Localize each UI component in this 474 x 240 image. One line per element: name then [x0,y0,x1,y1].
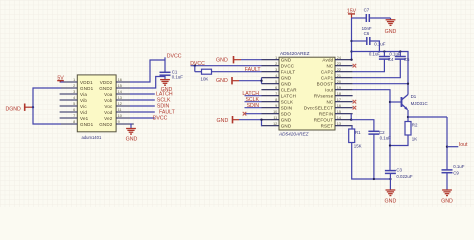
U2 pin 3 (FAULT) [261,68,295,75]
D1 part MJD31C [411,101,428,106]
U2 pin 2 (DVCC) [261,62,294,69]
wire AVDD rail [352,52,409,95]
svg-text:Vib: Vib [80,98,87,103]
power port 5V [57,76,64,83]
svg-text:Vod: Vod [104,110,113,115]
svg-text:4: 4 [275,74,277,78]
junction 15V/AVDD rail [350,50,352,52]
svg-text:DGND: DGND [6,106,22,112]
wire C6 to AVDD rail [370,41,380,52]
U2 pin 22 (CAP2) [321,68,353,75]
C4 value 0.1uF [369,51,381,56]
svg-text:Vob: Vob [104,98,113,103]
svg-text:GND1: GND1 [80,86,94,91]
D1 designator [411,94,417,99]
net label SDIN [157,103,170,109]
svg-text:FAULT: FAULT [245,67,262,73]
wire U1 pin11 net FAULT [130,111,155,113]
net label SDIN (U2 side) [247,103,260,109]
wire REFOUT to C2 [351,120,374,132]
svg-text:0.022uF: 0.022uF [396,174,412,179]
C2 value 0.1uF [380,136,392,141]
wire GND port bracket to U2 pins 4,5 [239,78,262,84]
C5 designator [404,57,410,62]
resistor R1 [349,129,355,143]
U1 pin 9 (GND2) [99,120,134,127]
wire DGND bus (U1 pins 2,8) [33,88,61,124]
svg-text:0.1uF: 0.1uF [380,136,392,141]
svg-text:MJD31C: MJD31C [411,101,428,106]
svg-text:C7: C7 [364,8,370,13]
wire net SCLK to U2 [245,101,262,103]
wire C7 to GND [369,18,390,20]
ground GND (below C9) [441,190,453,205]
net label DVCC [153,115,168,121]
junction rail / C5 [399,50,401,52]
U2 pin 10 (SDO) [261,110,291,117]
U2 pin 8 (SCLK) [261,98,293,105]
transistor D1 MJD31C [402,95,409,111]
svg-text:15K: 15K [354,144,362,149]
net label SCLK (U2 side) [245,97,259,103]
svg-text:SCLK: SCLK [281,100,294,105]
svg-text:RVsense: RVsense [314,94,334,99]
U1 pin 3 (Via) [60,90,88,97]
svg-text:2: 2 [73,84,75,88]
wire R1 bottom to ground bus [352,143,391,180]
net label FAULT [245,67,262,73]
C2 designator [379,130,385,135]
svg-text:Voc: Voc [104,104,113,109]
U1 pin 5 (Vic) [60,102,88,109]
U2 pin 7 (LATCH) [261,92,296,99]
svg-text:23: 23 [337,62,341,66]
svg-text:12: 12 [273,122,277,126]
U1 pin 4 (Vib) [60,96,88,103]
no-ERC cross on SDO [243,112,247,116]
C7 value 10nF [362,26,372,31]
svg-text:LATCH: LATCH [281,94,296,99]
svg-text:20: 20 [337,80,341,84]
U2 pin 1 (GND) [261,56,291,63]
svg-text:2: 2 [275,62,277,66]
U1 pin 15 (GND2) [99,84,134,91]
wire base [390,101,402,103]
svg-text:REFOUT: REFOUT [314,118,334,123]
U2 pin 9 (SDIN) [261,104,292,111]
U2 pin 12 (GND) [261,122,291,129]
wire R2 bottom to base node [390,135,408,146]
svg-text:C4: C4 [388,57,394,62]
svg-text:16: 16 [118,78,122,82]
wire U2 pin15 REFIN jog [350,114,352,120]
R4 value 10K [201,77,209,82]
svg-text:GND: GND [385,29,397,35]
svg-text:17: 17 [337,98,341,102]
junction 15V/C6 [350,40,352,42]
svg-text:19: 19 [337,86,341,90]
U1 pin 7 (Ve1) [60,114,89,121]
svg-text:SDIN: SDIN [281,106,293,111]
svg-text:10: 10 [118,114,122,118]
U2 pin 5 (GND) [261,80,291,87]
junction GND bracket [260,80,262,82]
no-ERC cross U2 pin23 NC [353,64,357,68]
U2 pin 19 (Iout) [325,86,353,93]
ground GND (below U1 pin9) [126,129,138,143]
wire Iout vertical to C9 [446,117,448,170]
junction DGND bus [32,106,34,108]
svg-text:GND: GND [281,118,292,123]
svg-text:CAP2: CAP2 [321,70,334,75]
R1 designator [355,130,361,135]
resistor R2 [405,122,411,136]
power port GND (U2 pins 4,5) [216,77,239,84]
svg-text:5: 5 [73,102,75,106]
wire C3 bottom stem [389,173,391,190]
svg-text:1K: 1K [412,136,417,141]
svg-text:14: 14 [337,116,341,120]
svg-text:GND: GND [385,199,397,205]
wire U2 pin20 BOOST to D1 collector [353,83,408,85]
svg-text:10: 10 [273,110,277,114]
svg-text:DvccSELECT: DvccSELECT [304,106,334,111]
C5 value 0.1uF [389,51,401,56]
junction BOOST/collector rail [407,83,409,85]
capacitor C2 [368,131,379,134]
svg-text:Vid: Vid [80,110,87,115]
svg-text:5: 5 [275,80,277,84]
capacitor C9 [442,170,453,173]
svg-text:C9: C9 [453,170,459,175]
svg-text:Ve1: Ve1 [80,116,89,121]
svg-text:11: 11 [118,108,122,112]
wire DVCC to U2 pin2 [191,65,262,67]
junction GND pin11/12 [260,119,262,121]
svg-text:Iout: Iout [325,88,334,93]
svg-text:Vic: Vic [80,104,87,109]
wire Iout label stub [447,146,458,148]
svg-text:0.1uF: 0.1uF [369,51,381,56]
svg-text:1: 1 [275,56,277,60]
svg-text:13: 13 [337,122,341,126]
U2 designator AD5420AREZ (top) [280,51,310,56]
svg-text:GND1: GND1 [80,122,94,127]
svg-text:Iout: Iout [459,142,468,148]
wire 15V to C6 [352,40,367,42]
svg-text:DVCC: DVCC [167,53,182,59]
svg-text:GND: GND [281,124,292,129]
C4 designator [388,57,394,62]
capacitor C5 [395,57,406,60]
net label Iout [459,142,468,148]
svg-text:GND: GND [281,58,292,63]
junction rail / C4 [383,50,385,52]
wire GND port to U2 pin11 and pin12 [239,120,262,126]
svg-text:12: 12 [118,102,122,106]
svg-text:RSET: RSET [321,124,334,129]
U1 part label adum1401 [82,135,102,140]
wire DVCC label stub down to C1 [164,57,166,72]
svg-text:AD5420AREZ: AD5420AREZ [280,51,310,56]
C6 designator [364,31,370,36]
svg-text:R1: R1 [355,130,361,135]
U2 pin 16 (DvccSELECT) [304,104,353,111]
junction rail / U2 pin24 Avdd [350,59,352,61]
wire U1 pin12 net SDIN [130,105,155,107]
power port GND (U2 pins 11,12) [217,116,240,124]
U2 pin 23 (NC) [326,62,352,69]
wire U2 pin10 SDO (no-ERC) [245,113,262,115]
svg-text:11: 11 [273,116,277,120]
svg-text:7: 7 [275,92,277,96]
no-ERC cross U2 pin17 NC [353,100,357,104]
U2 pin 24 (Avdd) [322,56,352,63]
net label FAULT [159,109,176,115]
U2 pin 6 (CLEAR) [261,86,297,93]
svg-text:R2: R2 [412,122,418,127]
svg-text:CLEAR: CLEAR [281,88,298,93]
U2 pin 11 (GND) [261,116,291,123]
junction R2/base-node vertical [389,144,391,146]
svg-text:0.1uF: 0.1uF [172,74,184,79]
U2 pin 17 (NC) [326,98,352,105]
capacitor C3 [385,171,396,174]
svg-text:GND: GND [216,58,228,64]
U1 pin 6 (Vid) [60,108,88,115]
C9 value 0.1uF [453,164,465,169]
wire 15V to C7 [352,17,367,19]
svg-text:16: 16 [337,104,341,108]
C1 designator [172,69,178,74]
wire C2 bottom to bus [373,134,375,179]
svg-text:C6: C6 [364,31,370,36]
svg-text:BOOST: BOOST [317,82,334,87]
svg-text:NC: NC [326,64,333,69]
svg-text:VDD1: VDD1 [80,80,93,85]
C7 designator [364,8,370,13]
capacitor C4 [379,57,390,60]
wire U1 pin15 GND2 to C1 ground node [130,77,165,89]
wire net SDIN to U2 [245,107,262,109]
C9 designator [453,170,459,175]
svg-text:Avdd: Avdd [322,58,333,63]
wire C4 top stem [383,52,385,57]
U1 pin 11 (Vod) [104,108,134,115]
svg-text:14: 14 [118,90,122,94]
power port 15V [347,9,357,18]
wire GND port to U2 pin1 [241,59,262,61]
svg-text:13: 13 [118,96,122,100]
wire R4 to U2 pin3 FAULT [212,71,262,73]
svg-text:FAULT: FAULT [281,70,296,75]
svg-text:CAP1: CAP1 [321,76,334,81]
wire C1 bottom to GND [164,75,166,79]
U1 pin 14 (Voa) [104,90,134,97]
svg-text:21: 21 [337,74,341,78]
junction REFIN/REFOUT [350,119,352,121]
junction emitter/Iout [407,116,409,118]
junction DVCC / R4 [194,65,196,67]
svg-text:9: 9 [118,120,120,124]
svg-text:10K: 10K [201,77,209,82]
svg-text:GND2: GND2 [99,86,113,91]
svg-text:18: 18 [337,92,341,96]
C3 designator [396,168,402,173]
U1 pin 2 (GND1) [60,84,94,91]
svg-text:SDIN: SDIN [247,103,260,109]
net label LATCH (U2 side) [242,91,259,97]
wire U1 pin13 net SCLK [130,99,155,101]
ground GND (below C1) [160,80,172,93]
ground GND (below C3) [385,190,397,205]
svg-text:GND: GND [281,82,292,87]
svg-text:Via: Via [80,92,87,97]
svg-text:8: 8 [73,120,75,124]
svg-text:6: 6 [73,108,75,112]
svg-text:DVCC: DVCC [281,64,295,69]
U2 pin 14 (REFOUT) [314,116,353,123]
svg-text:GND2: GND2 [99,122,113,127]
power port DGND [6,104,34,113]
ground GND (right of C7) [385,20,397,35]
wire emitter down [407,110,409,122]
svg-text:GND: GND [126,137,138,143]
svg-text:15: 15 [337,110,341,114]
svg-text:GND: GND [217,118,229,124]
junction base tee [389,101,391,103]
wire 5V to U1 pin 1 [61,81,64,83]
U2 pin 15 (REFIN) [319,110,353,117]
svg-text:SDO: SDO [281,112,292,117]
capacitor C6 [367,37,370,45]
net label DVCC (C1 top) [167,53,182,59]
no-ERC cross U2 pin16 DvccSELECT [353,106,357,110]
R1 value 15K [354,144,362,149]
capacitor C7 [366,14,369,22]
U1 pin 10 (Ve2) [104,114,134,121]
wire U1 pin16 VDD2 to DVCC/C1 [130,60,165,82]
wire C4 to U2 pin22 CAP2 [353,59,385,72]
svg-text:Voa: Voa [104,92,113,97]
wire U1 pin9 GND2 to ground [130,124,131,129]
junction C2/bus [373,178,375,180]
wire 15V vertical rail [351,18,353,60]
svg-text:GND: GND [216,78,228,84]
svg-text:GND: GND [441,199,453,205]
R2 designator [412,122,418,127]
svg-text:3: 3 [275,68,277,72]
svg-text:C2: C2 [379,130,385,135]
C6 value 0.1uF [374,41,386,46]
svg-text:0.1uF: 0.1uF [389,51,401,56]
svg-text:9: 9 [275,104,277,108]
net label LATCH [156,91,173,97]
wire net LATCH to U2 [245,95,262,97]
wire U2 pin19 Iout down to base node [353,90,390,171]
wire U1 pin14 net LATCH [130,93,155,95]
svg-text:15: 15 [118,84,122,88]
svg-text:DVCC: DVCC [153,115,168,121]
U2 pin 18 (RVsense) [314,92,353,99]
C1 value 0.1uF [172,74,184,79]
IC U1 adum1401 body [77,75,116,132]
svg-text:10nF: 10nF [362,26,372,31]
U1 pin 16 (VDD2) [100,78,134,85]
svg-text:7: 7 [73,114,75,118]
svg-text:8: 8 [275,98,277,102]
U2 part label AD5420AREZ (bottom, italic) [278,131,309,136]
U2 pin 21 (CAP1) [321,74,353,81]
resistor R4 10K (FAULT pullup) [202,69,212,74]
svg-text:adum1401: adum1401 [82,135,102,140]
U1 pin 12 (Voc) [104,102,133,109]
wire U2 pin13 RSET jog to R1 [351,126,353,129]
svg-text:Ve2: Ve2 [104,116,113,121]
wire C5 top stem [399,52,401,57]
svg-text:6: 6 [275,86,277,90]
wire C9 bottom stem [446,173,448,190]
svg-text:24: 24 [337,56,341,60]
U2 pin 20 (BOOST) [317,80,353,87]
svg-text:1: 1 [73,78,75,82]
net label DVCC (U2 pin2) [190,61,205,67]
svg-text:AD5420AREZ: AD5420AREZ [278,131,309,136]
wire C5 to U2 pin21 CAP1 [353,59,401,78]
U1 pin 8 (GND1) [60,120,94,127]
svg-text:VDD2: VDD2 [100,80,113,85]
svg-text:REFIN: REFIN [319,112,334,117]
svg-text:0.1uF: 0.1uF [453,164,465,169]
wire DVCC down to R4 [195,66,202,72]
power port GND (U2 pin1) [216,56,241,64]
svg-text:3: 3 [73,90,75,94]
junction bus/C3 stem [389,178,391,180]
wire U1 pin10 net DVCC [130,117,155,119]
svg-text:C3: C3 [396,168,402,173]
net label SCLK [157,97,171,103]
junction Iout label stub [446,146,448,148]
capacitor C1 [160,72,171,75]
svg-text:NC: NC [326,100,333,105]
wire emitter to Iout node [408,116,447,118]
U1 pin 1 (VDD1) [60,78,94,85]
svg-text:4: 4 [73,96,75,100]
svg-text:D1: D1 [411,94,417,99]
U2 pin 4 (GND) [261,74,291,81]
U1 pin 13 (Vob) [104,96,134,103]
R2 value 1K [412,136,417,141]
svg-text:GND: GND [281,76,292,81]
U2 pin 13 (RSET) [321,122,353,129]
svg-text:22: 22 [337,68,341,72]
IC U2 AD5420AREZ body [279,57,335,130]
C3 value 0.022uF [396,174,412,179]
svg-text:C5: C5 [404,57,410,62]
